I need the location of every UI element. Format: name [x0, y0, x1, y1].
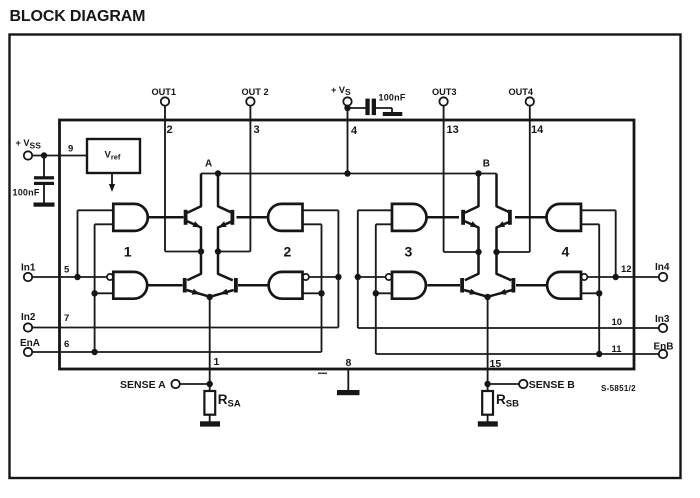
svg-text:10: 10: [612, 317, 623, 328]
svg-text:1: 1: [214, 356, 220, 368]
svg-text:In2: In2: [21, 312, 36, 323]
svg-text:In3: In3: [655, 314, 670, 325]
svg-text:4: 4: [562, 243, 570, 259]
svg-text:S-5851/2: S-5851/2: [601, 384, 636, 393]
svg-text:EnB: EnB: [654, 342, 674, 353]
svg-text:OUT3: OUT3: [432, 87, 457, 97]
svg-text:11: 11: [612, 344, 623, 355]
svg-text:100nF: 100nF: [379, 93, 406, 103]
svg-text:EnA: EnA: [20, 338, 40, 349]
svg-text:RSB: RSB: [496, 392, 519, 410]
svg-text:7: 7: [64, 313, 69, 324]
svg-text:OUT 2: OUT 2: [242, 87, 269, 97]
svg-text:2: 2: [167, 124, 173, 136]
svg-text:100nF: 100nF: [13, 188, 40, 198]
svg-text:15: 15: [490, 358, 502, 370]
svg-text:In1: In1: [21, 263, 36, 274]
svg-text:3: 3: [405, 243, 413, 259]
svg-text:9: 9: [68, 144, 73, 155]
svg-text:+ VSS: + VSS: [16, 138, 42, 151]
svg-text:OUT1: OUT1: [152, 87, 177, 97]
svg-text:Vref: Vref: [105, 149, 121, 161]
svg-text:5: 5: [64, 265, 70, 276]
svg-text:3: 3: [254, 124, 260, 136]
svg-text:In4: In4: [655, 262, 670, 273]
svg-text:13: 13: [447, 124, 459, 136]
svg-text:BLOCK DIAGRAM: BLOCK DIAGRAM: [10, 8, 146, 25]
svg-text:14: 14: [531, 124, 544, 136]
svg-text:8: 8: [346, 357, 352, 369]
svg-text:A: A: [205, 158, 212, 169]
svg-text:6: 6: [64, 339, 69, 350]
svg-text:SENSE B: SENSE B: [529, 379, 576, 391]
svg-text:12: 12: [621, 264, 632, 275]
svg-text:2: 2: [284, 243, 292, 259]
svg-text:+ VS: + VS: [331, 85, 351, 97]
svg-text:OUT4: OUT4: [509, 87, 534, 97]
svg-text:1: 1: [124, 243, 132, 259]
svg-text:SENSE A: SENSE A: [120, 379, 166, 391]
svg-text:B: B: [483, 158, 490, 169]
svg-text:RSA: RSA: [218, 392, 241, 410]
svg-text:4: 4: [351, 125, 358, 137]
